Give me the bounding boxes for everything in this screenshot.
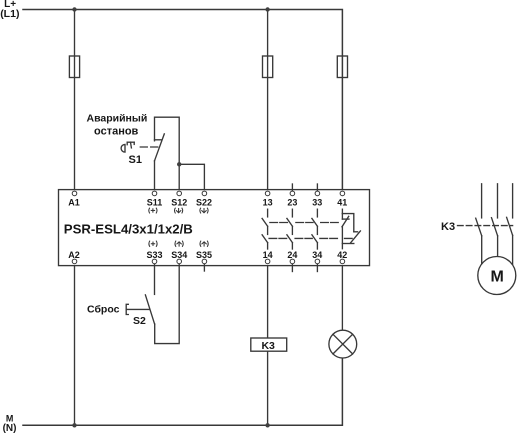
svg-text:(L1): (L1) [0, 8, 19, 20]
svg-text:13: 13 [263, 198, 273, 208]
svg-text:41: 41 [337, 198, 347, 208]
svg-text:останов: останов [94, 126, 139, 138]
svg-text:(N): (N) [3, 423, 17, 434]
svg-text:23: 23 [287, 198, 297, 208]
svg-text:S11: S11 [147, 198, 163, 208]
svg-text:M: M [6, 414, 13, 424]
svg-text:M: M [491, 269, 504, 286]
svg-text:A2: A2 [68, 250, 80, 260]
svg-text:A1: A1 [68, 198, 80, 208]
svg-text:S33: S33 [146, 250, 162, 260]
svg-text:K3: K3 [441, 221, 455, 233]
svg-text:24: 24 [287, 250, 297, 260]
svg-text:14: 14 [263, 250, 273, 260]
svg-text:Аварийный: Аварийный [87, 113, 148, 125]
svg-text:PSR-ESL4/3x1/1x2/B: PSR-ESL4/3x1/1x2/B [64, 221, 193, 236]
svg-text:34: 34 [312, 250, 322, 260]
svg-text:33: 33 [312, 198, 322, 208]
svg-text:K3: K3 [261, 340, 275, 352]
svg-text:S12: S12 [171, 198, 187, 208]
svg-text:S1: S1 [129, 154, 142, 166]
svg-text:Сброс: Сброс [87, 303, 120, 315]
svg-text:S2: S2 [133, 315, 146, 327]
svg-text:42: 42 [337, 250, 347, 260]
svg-text:S34: S34 [171, 250, 187, 260]
svg-text:S22: S22 [196, 198, 212, 208]
svg-text:S35: S35 [196, 250, 212, 260]
